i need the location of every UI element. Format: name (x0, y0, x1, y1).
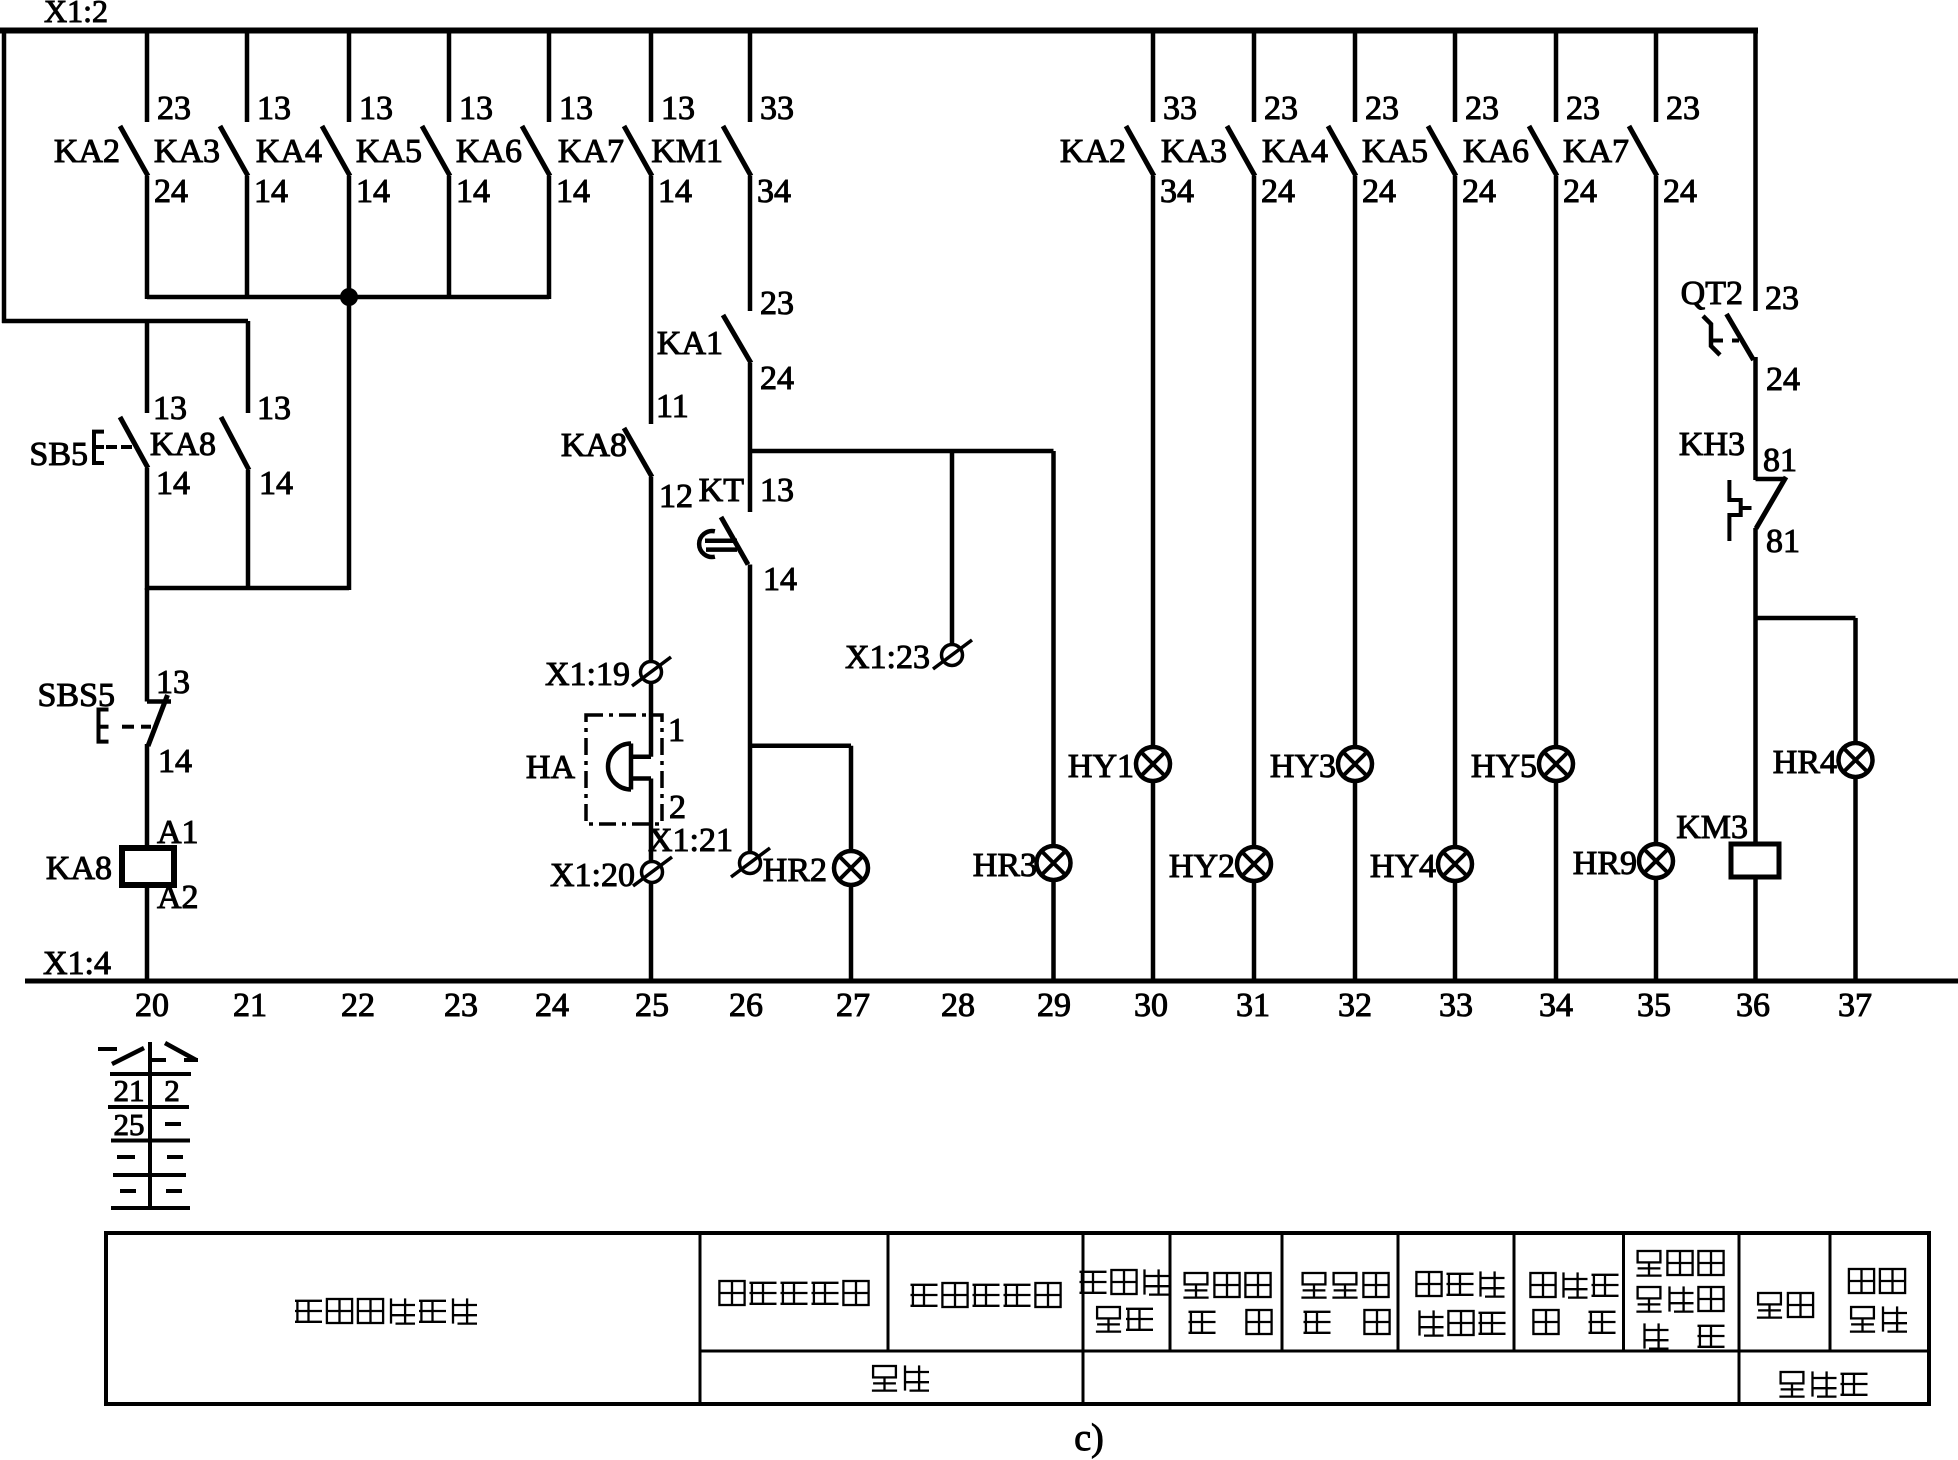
svg-text:29: 29 (1037, 987, 1071, 1024)
svg-text:24: 24 (1362, 173, 1396, 210)
svg-text:13: 13 (156, 664, 190, 701)
svg-text:HR3: HR3 (973, 847, 1037, 884)
svg-text:23: 23 (157, 90, 191, 127)
svg-text:KA1: KA1 (657, 325, 723, 362)
svg-text:SB5: SB5 (29, 436, 88, 473)
svg-text:14: 14 (156, 465, 190, 502)
svg-text:HY2: HY2 (1169, 848, 1235, 885)
svg-text:X1:19: X1:19 (545, 656, 630, 693)
svg-text:34: 34 (1539, 987, 1573, 1024)
svg-text:27: 27 (836, 987, 870, 1024)
svg-text:KA8: KA8 (46, 850, 112, 887)
svg-text:23: 23 (1365, 90, 1399, 127)
svg-text:c): c) (1074, 1417, 1104, 1459)
svg-text:KA8: KA8 (561, 427, 627, 464)
svg-text:QT2: QT2 (1681, 275, 1743, 312)
svg-text:24: 24 (1462, 173, 1496, 210)
svg-text:37: 37 (1838, 987, 1872, 1024)
svg-text:24: 24 (1261, 173, 1295, 210)
svg-text:14: 14 (254, 173, 288, 210)
svg-text:11: 11 (656, 388, 689, 425)
svg-text:24: 24 (760, 360, 794, 397)
svg-text:33: 33 (1439, 987, 1473, 1024)
svg-text:13: 13 (257, 390, 291, 427)
svg-text:24: 24 (1663, 173, 1697, 210)
svg-text:HR4: HR4 (1773, 744, 1837, 781)
svg-text:KA3: KA3 (1161, 133, 1227, 170)
svg-text:81: 81 (1766, 523, 1800, 560)
svg-text:14: 14 (763, 561, 797, 598)
svg-text:2: 2 (669, 789, 686, 826)
svg-text:X1:23: X1:23 (845, 639, 930, 676)
svg-text:HY5: HY5 (1471, 748, 1537, 785)
svg-text:KT: KT (699, 472, 745, 509)
svg-text:21: 21 (233, 987, 267, 1024)
svg-text:A1: A1 (157, 814, 199, 851)
svg-text:KA8: KA8 (150, 426, 216, 463)
svg-text:23: 23 (1666, 90, 1700, 127)
svg-text:KA4: KA4 (1262, 133, 1328, 170)
svg-text:81: 81 (1763, 442, 1797, 479)
svg-text:14: 14 (658, 173, 692, 210)
svg-text:KA4: KA4 (256, 133, 322, 170)
svg-text:36: 36 (1736, 987, 1770, 1024)
svg-text:12: 12 (659, 478, 693, 515)
svg-text:KA7: KA7 (558, 133, 624, 170)
svg-text:HR2: HR2 (763, 852, 827, 889)
svg-text:14: 14 (158, 743, 192, 780)
svg-text:33: 33 (760, 90, 794, 127)
svg-text:23: 23 (1566, 90, 1600, 127)
svg-text:KA6: KA6 (456, 133, 522, 170)
svg-text:24: 24 (1766, 361, 1800, 398)
svg-text:13: 13 (559, 90, 593, 127)
svg-text:KA5: KA5 (356, 133, 422, 170)
svg-text:25: 25 (635, 987, 669, 1024)
svg-text:KM1: KM1 (651, 133, 723, 170)
svg-text:X1:4: X1:4 (43, 945, 111, 982)
svg-text:24: 24 (154, 173, 188, 210)
svg-text:14: 14 (456, 173, 490, 210)
svg-text:13: 13 (661, 90, 695, 127)
svg-text:32: 32 (1338, 987, 1372, 1024)
svg-text:HA: HA (526, 749, 576, 786)
svg-text:31: 31 (1236, 987, 1270, 1024)
svg-text:14: 14 (259, 465, 293, 502)
svg-text:KA3: KA3 (154, 133, 220, 170)
svg-text:24: 24 (1563, 173, 1597, 210)
svg-text:KA6: KA6 (1463, 133, 1529, 170)
svg-text:28: 28 (941, 987, 975, 1024)
svg-text:KA2: KA2 (54, 133, 120, 170)
svg-text:A2: A2 (157, 879, 199, 916)
svg-text:25: 25 (114, 1107, 145, 1142)
svg-text:23: 23 (760, 285, 794, 322)
svg-text:33: 33 (1163, 90, 1197, 127)
svg-text:KA7: KA7 (1563, 133, 1629, 170)
svg-text:24: 24 (535, 987, 569, 1024)
svg-text:14: 14 (356, 173, 390, 210)
svg-text:KH3: KH3 (1679, 426, 1745, 463)
svg-text:22: 22 (341, 987, 375, 1024)
svg-text:20: 20 (135, 987, 169, 1024)
svg-text:HY3: HY3 (1270, 748, 1336, 785)
svg-text:26: 26 (729, 987, 763, 1024)
svg-text:23: 23 (1465, 90, 1499, 127)
svg-text:23: 23 (1765, 280, 1799, 317)
svg-text:X1:20: X1:20 (550, 857, 635, 894)
svg-text:13: 13 (459, 90, 493, 127)
svg-text:X1:2: X1:2 (44, 0, 108, 29)
svg-text:13: 13 (760, 472, 794, 509)
svg-text:13: 13 (359, 90, 393, 127)
svg-text:23: 23 (444, 987, 478, 1024)
svg-text:KM3: KM3 (1676, 809, 1748, 846)
svg-text:34: 34 (757, 173, 791, 210)
svg-text:HY4: HY4 (1370, 848, 1436, 885)
svg-text:14: 14 (556, 173, 590, 210)
svg-text:X1:21: X1:21 (648, 822, 733, 859)
svg-text:KA5: KA5 (1362, 133, 1428, 170)
svg-text:13: 13 (153, 390, 187, 427)
svg-text:HR9: HR9 (1573, 845, 1637, 882)
svg-text:23: 23 (1264, 90, 1298, 127)
svg-text:13: 13 (257, 90, 291, 127)
svg-text:21: 21 (114, 1073, 145, 1108)
svg-text:KA2: KA2 (1060, 133, 1126, 170)
svg-text:35: 35 (1637, 987, 1671, 1024)
svg-text:2: 2 (164, 1073, 180, 1108)
svg-text:HY1: HY1 (1068, 748, 1134, 785)
svg-text:1: 1 (668, 712, 685, 749)
svg-text:30: 30 (1134, 987, 1168, 1024)
svg-text:34: 34 (1160, 173, 1194, 210)
